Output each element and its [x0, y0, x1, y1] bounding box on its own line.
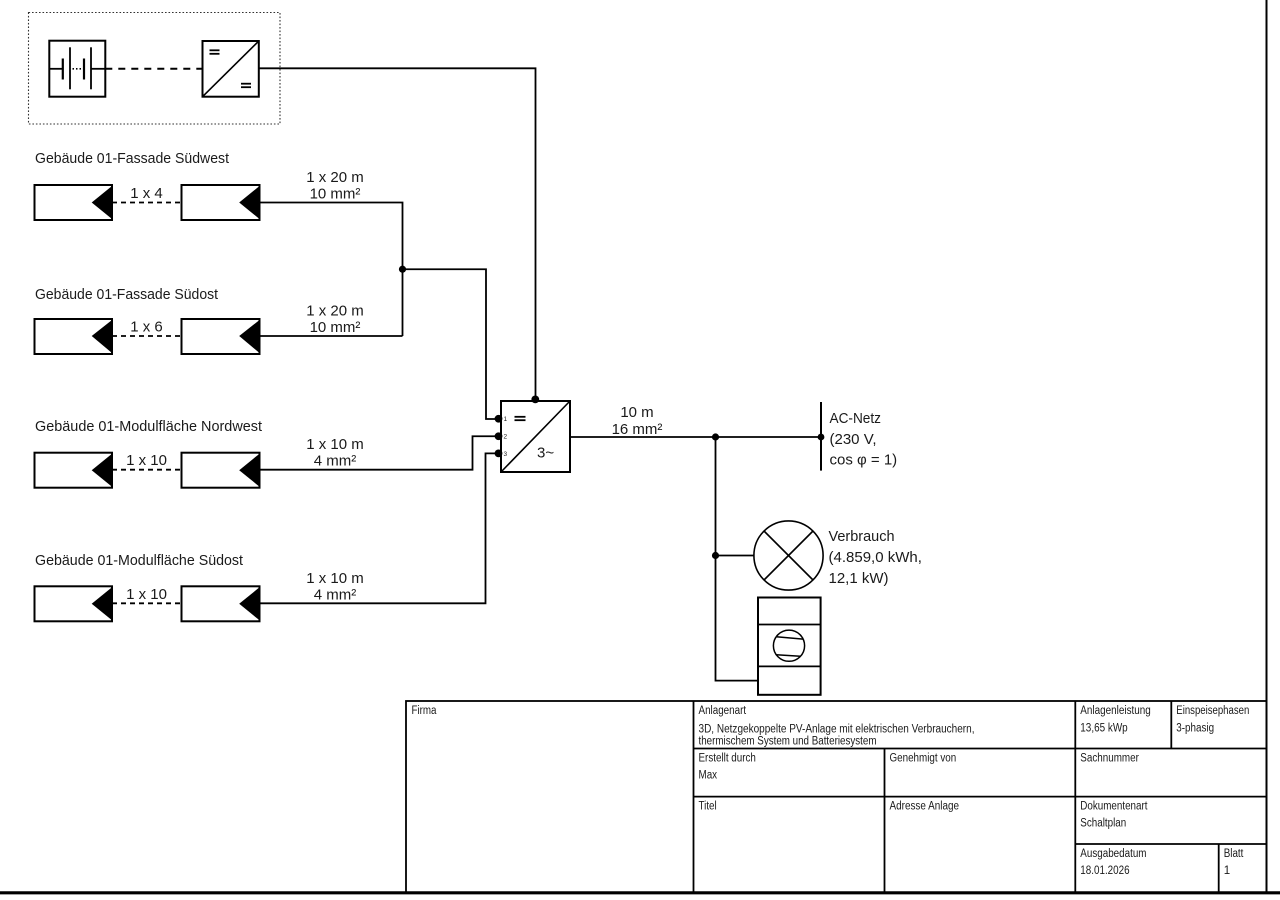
svg-text:1 x 20 m: 1 x 20 m: [306, 303, 364, 320]
svg-text:cos φ = 1): cos φ = 1): [830, 452, 898, 469]
svg-text:1: 1: [1224, 865, 1230, 877]
svg-text:Sachnummer: Sachnummer: [1080, 753, 1139, 765]
svg-text:(230 V,: (230 V,: [830, 431, 877, 448]
svg-text:3~: 3~: [537, 445, 554, 462]
svg-text:Ausgabedatum: Ausgabedatum: [1080, 848, 1146, 860]
svg-text:Gebäude 01-Modulfläche Südost: Gebäude 01-Modulfläche Südost: [35, 552, 244, 569]
svg-text:3D, Netzgekoppelte PV-Anlage m: 3D, Netzgekoppelte PV-Anlage mit elektri…: [699, 724, 975, 736]
svg-text:4 mm²: 4 mm²: [314, 586, 357, 603]
svg-text:1 x 10 m: 1 x 10 m: [306, 570, 364, 587]
svg-text:3-phasig: 3-phasig: [1176, 723, 1214, 735]
svg-text:Genehmigt von: Genehmigt von: [890, 753, 957, 765]
svg-text:Einspeisephasen: Einspeisephasen: [1176, 705, 1249, 717]
svg-text:Firma: Firma: [412, 705, 438, 717]
svg-text:Dokumentenart: Dokumentenart: [1080, 801, 1148, 813]
svg-text:Blatt: Blatt: [1224, 848, 1244, 860]
svg-text:2: 2: [504, 434, 508, 441]
svg-text:1 x 6: 1 x 6: [130, 319, 163, 336]
svg-text:3: 3: [504, 451, 508, 458]
svg-text:Anlagenart: Anlagenart: [699, 705, 747, 717]
svg-text:12,1 kW): 12,1 kW): [829, 570, 889, 587]
svg-text:Max: Max: [699, 770, 718, 782]
svg-text:4 mm²: 4 mm²: [314, 453, 357, 470]
svg-text:Erstellt durch: Erstellt durch: [699, 753, 756, 765]
svg-text:AC-Netz: AC-Netz: [830, 410, 882, 427]
svg-text:(4.859,0 kWh,: (4.859,0 kWh,: [829, 549, 922, 566]
svg-text:10 mm²: 10 mm²: [310, 319, 361, 336]
svg-text:1 x 4: 1 x 4: [130, 185, 163, 202]
svg-text:Gebäude 01-Modulfläche Nordwes: Gebäude 01-Modulfläche Nordwest: [35, 418, 263, 435]
svg-text:10 m: 10 m: [620, 404, 653, 421]
svg-text:10 mm²: 10 mm²: [310, 186, 361, 203]
svg-text:Anlagenleistung: Anlagenleistung: [1080, 705, 1151, 717]
svg-text:Verbrauch: Verbrauch: [829, 528, 895, 545]
svg-text:Schaltplan: Schaltplan: [1080, 818, 1126, 830]
svg-text:1 x 10 m: 1 x 10 m: [306, 436, 364, 453]
svg-text:1 x 20 m: 1 x 20 m: [306, 169, 364, 186]
svg-text:Gebäude 01-Fassade Südwest: Gebäude 01-Fassade Südwest: [35, 150, 230, 167]
svg-text:1 x 10: 1 x 10: [126, 586, 167, 603]
svg-text:1 x 10: 1 x 10: [126, 452, 167, 469]
svg-text:Titel: Titel: [699, 801, 717, 813]
svg-text:Gebäude 01-Fassade Südost: Gebäude 01-Fassade Südost: [35, 286, 219, 303]
svg-text:13,65 kWp: 13,65 kWp: [1080, 723, 1127, 735]
svg-text:thermischem System und Batteri: thermischem System und Batteriesystem: [699, 736, 877, 748]
svg-text:16 mm²: 16 mm²: [612, 421, 663, 438]
svg-text:18.01.2026: 18.01.2026: [1080, 865, 1129, 877]
svg-text:Adresse Anlage: Adresse Anlage: [890, 801, 960, 813]
svg-text:1: 1: [504, 416, 508, 423]
